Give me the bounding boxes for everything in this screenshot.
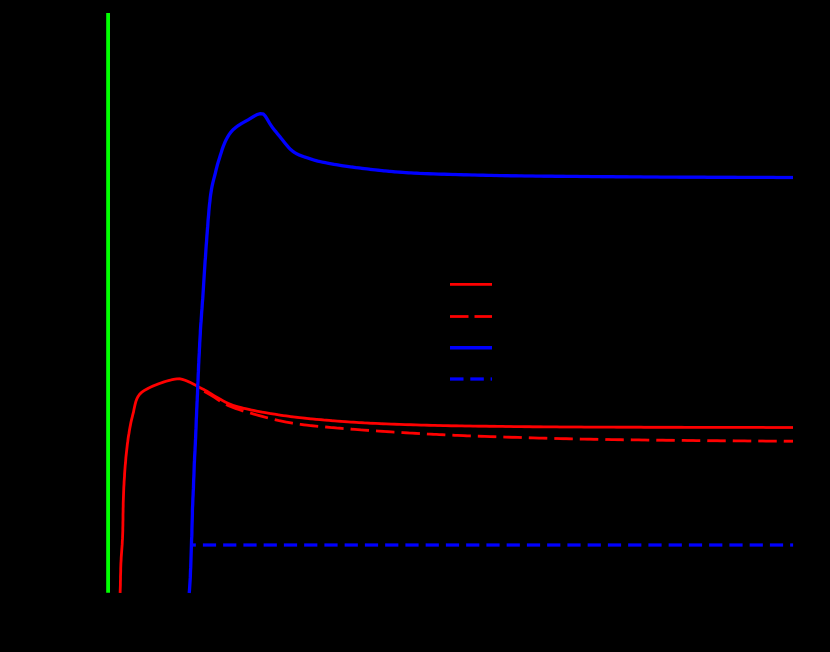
blue solid curve (189, 114, 793, 593)
legend sample: red solid (450, 283, 492, 286)
red solid curve (120, 379, 793, 593)
blue dashed horizontal line (192, 543, 793, 546)
legend sample: blue solid (450, 346, 492, 350)
legend sample: red dashed (450, 315, 492, 318)
red dashed curve (199, 389, 793, 442)
green vertical line (106, 13, 110, 593)
legend sample: blue dashed (450, 377, 492, 380)
